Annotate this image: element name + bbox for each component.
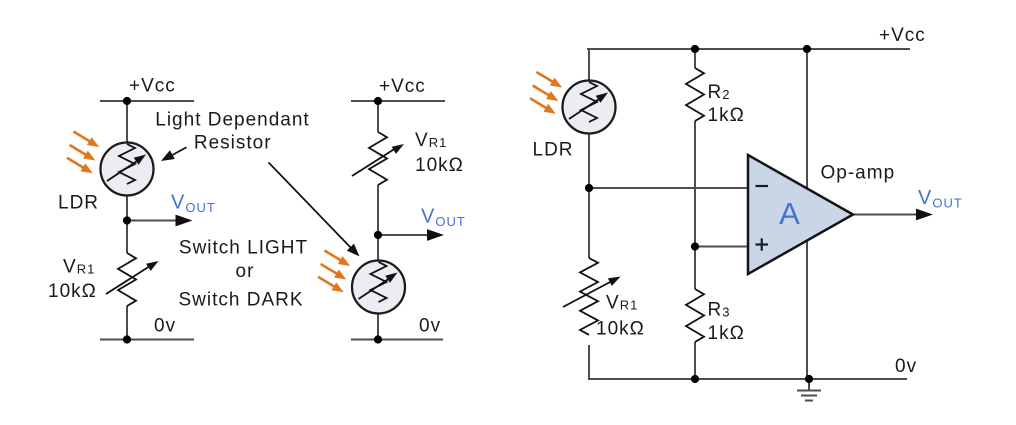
svg-text:0v: 0v bbox=[154, 316, 176, 337]
svg-text:LDR: LDR bbox=[58, 193, 99, 214]
svg-text:Resistor: Resistor bbox=[194, 133, 272, 154]
svg-text:0v: 0v bbox=[895, 356, 917, 377]
svg-text:A: A bbox=[779, 196, 801, 231]
svg-text:R3: R3 bbox=[708, 300, 731, 321]
svg-text:VR1: VR1 bbox=[63, 257, 95, 278]
svg-text:VR1: VR1 bbox=[415, 130, 447, 151]
svg-text:or: or bbox=[236, 261, 255, 282]
svg-text:10kΩ: 10kΩ bbox=[48, 281, 97, 302]
svg-text:VOUT: VOUT bbox=[421, 206, 466, 230]
svg-text:1kΩ: 1kΩ bbox=[708, 323, 745, 344]
svg-text:+Vcc: +Vcc bbox=[879, 25, 926, 46]
svg-text:Light Dependant: Light Dependant bbox=[155, 110, 309, 131]
svg-text:Switch LIGHT: Switch LIGHT bbox=[179, 238, 308, 259]
svg-text:+Vcc: +Vcc bbox=[379, 76, 426, 97]
svg-text:LDR: LDR bbox=[533, 140, 574, 161]
svg-text:Switch DARK: Switch DARK bbox=[178, 290, 303, 311]
svg-text:10kΩ: 10kΩ bbox=[596, 319, 645, 340]
svg-text:+Vcc: +Vcc bbox=[129, 76, 176, 97]
svg-text:R2: R2 bbox=[708, 82, 731, 103]
svg-text:VR1: VR1 bbox=[606, 293, 638, 314]
svg-text:10kΩ: 10kΩ bbox=[415, 155, 464, 176]
svg-text:0v: 0v bbox=[419, 316, 441, 337]
svg-text:1kΩ: 1kΩ bbox=[708, 105, 745, 126]
svg-text:VOUT: VOUT bbox=[171, 192, 216, 216]
svg-text:Op-amp: Op-amp bbox=[821, 163, 896, 184]
svg-text:VOUT: VOUT bbox=[918, 187, 963, 211]
